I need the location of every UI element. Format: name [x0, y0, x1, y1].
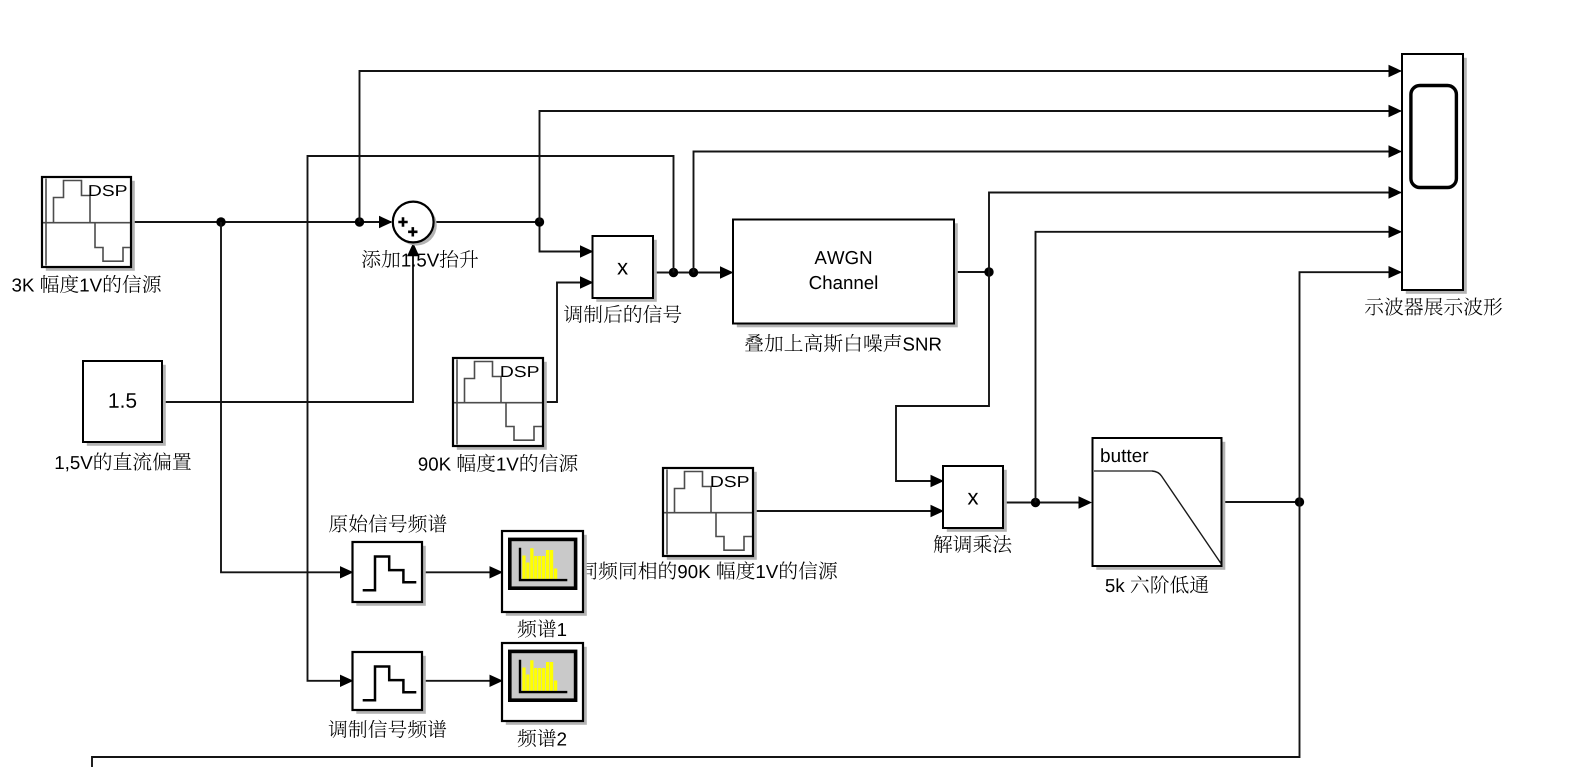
product block 2 (解调乘法) [943, 466, 1007, 532]
AWGN channel block [733, 220, 958, 328]
label: 90K 幅度1V的信源 [419, 454, 578, 472]
wire: modulated signal branch up to scope input 3 [694, 145, 1403, 272]
label: 频谱2 [518, 729, 567, 747]
wire: sum output branch up to scope input 2 [540, 105, 1403, 222]
label: 解调乘法 [934, 535, 1012, 553]
label: 添加1.5V抬升 [362, 250, 478, 268]
junction: node on demodulated product output [1031, 498, 1040, 507]
wire: DSP2 90K carrier output to product1 input 2 [543, 276, 594, 402]
sum block (添加1.5V抬升) [393, 202, 437, 246]
signal source block DSP3 (同频同相的90K 幅度1V的信源) [663, 468, 757, 560]
junction: node on DSP1 output (branch to spectrum chain) [216, 217, 225, 226]
wire: 原始信号频谱 output to 频谱1 scope [422, 566, 503, 578]
label: 同频同相的90K 幅度1V的信源 [581, 561, 837, 579]
scope block (示波器展示波形) [1402, 54, 1467, 294]
wire: DSP1 branch down to 原始信号频谱 block [221, 222, 354, 579]
label: 调制信号频谱 [329, 720, 446, 738]
wire: AWGN output branch down to product2 input 1 [896, 272, 989, 487]
label: 调制后的信号 [564, 305, 681, 323]
buffer block 原始信号频谱 [353, 542, 426, 606]
wire: constant 1.5 output to sum bottom input [162, 243, 419, 402]
wire: butter filter output [1222, 501, 1300, 503]
wire: 调制信号频谱 output to 频谱2 scope [422, 675, 503, 687]
label: 示波器展示波形 [1365, 298, 1502, 316]
wire: DSP1 source output to sum block input [131, 216, 393, 228]
wire: product1 output to AWGN channel input [653, 266, 734, 278]
buffer block 调制信号频谱 [353, 652, 426, 714]
wire: AWGN output branch up to scope input 4 [989, 186, 1402, 272]
wire: product2 output to butter filter input [1003, 496, 1092, 508]
signal source block DSP1 (3K 幅度1V的信源) [42, 177, 135, 271]
wire: filtered output up to scope input 6 [1300, 266, 1403, 502]
wire: DSP1 branch up to scope input 1 [360, 65, 1403, 222]
wire: filtered output feedback down and across bottom [92, 502, 1300, 767]
wire: modulated signal branch to 调制信号频谱 block [308, 156, 674, 687]
junction: node on modulated signal (branch to 调制信号频谱) [669, 268, 678, 277]
product block 1 (调制后的信号) [593, 236, 657, 302]
junction: node on DSP1 output (branch to scope line 1) [355, 217, 364, 226]
label: 3K 幅度1V的信源 [12, 275, 161, 293]
junction: node on sum output [535, 217, 544, 226]
wire: DSP3 local oscillator output to product2 input 2 [753, 505, 944, 517]
label: 1,5V的直流偏置 [56, 452, 191, 471]
constant block 1.5 [83, 361, 166, 446]
butter lowpass filter block (5k 六阶低通) [1093, 438, 1226, 570]
label: 叠加上高斯白噪声SNR [745, 334, 941, 352]
wire: sum output to product1 input 1 [434, 222, 594, 258]
wire: AWGN channel output [954, 271, 989, 273]
spectrum scope block 频谱1 [502, 531, 587, 616]
label: 5k 六阶低通 [1106, 576, 1209, 594]
label: 原始信号频谱 [329, 514, 446, 532]
junction: node on filtered output [1295, 497, 1304, 506]
wire: demodulated signal branch up to scope input 5 [1036, 226, 1403, 503]
junction: node on AWGN output [984, 267, 993, 276]
spectrum scope block 频谱2 [502, 643, 587, 725]
label: 频谱1 [518, 619, 567, 637]
signal source block DSP2 (90K 幅度1V的信源) [453, 358, 547, 450]
junction: node on modulated signal (branch to scope input 3) [689, 268, 698, 277]
